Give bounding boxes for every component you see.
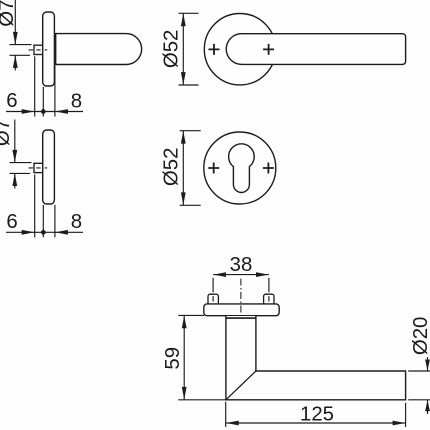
ext line Ø52 top (row2) [180,130,201,132]
ext line pin bottom (row1) [10,54,31,56]
centreline (row3) [240,279,242,322]
arrow 38 right [256,272,269,277]
ext line x=54.9 (row2) [54,205,56,238]
dim line Ø7 upper (row2) [14,120,16,163]
dim line 6/8 (row2) [6,231,83,233]
screw right (row3) [264,294,274,305]
svg-text:6: 6 [6,211,17,233]
arrow 59 up [182,316,187,329]
dim line 125 [226,422,406,424]
screw slot right (row3) [268,296,270,301]
dim line 6/8 (row1) [6,111,83,113]
arrow 8 (row1) [55,109,68,114]
dim line Ø52 (row1) [182,13,184,85]
svg-text:59: 59 [162,347,184,370]
ext line x=43.3 (row2) [42,205,44,238]
arrow Ø7 up (row2) [12,173,17,186]
neck collar line [225,317,256,319]
arrow 6 (row2) [22,230,35,235]
dim line Ø20 upper [427,357,429,371]
svg-text:Ø20: Ø20 [410,317,430,356]
dim line Ø20 lower [427,400,429,414]
arrow Ø20 up [425,400,430,411]
svg-text:6: 6 [6,90,17,112]
screw cross left (row2) [208,163,219,174]
arrow 6 (row1) [22,109,35,114]
arrow Ø52 down (row1) [181,72,186,85]
spindle pin (row2) [34,163,43,172]
dim line 38 [213,274,269,276]
ext line 125 left [225,402,227,427]
dim line Ø7 lower (row2) [14,174,16,189]
svg-text:Ø52: Ø52 [161,30,183,69]
svg-text:125: 125 [300,403,334,425]
svg-text:8: 8 [71,211,82,233]
ext line x=43.3 (row1) [42,87,44,117]
screw slot left (row3) [212,296,214,301]
arrow 125 right [393,421,406,426]
arrow Ø7 down (row1) [13,32,18,45]
ext line Ø20 bottom [408,399,430,401]
screw cross right (row2) [263,163,274,174]
pin centreline dashes (row1) [29,49,48,51]
ext line pin top (row1) [10,44,32,46]
arrow Ø52 down (row2) [181,192,186,205]
dim line Ø52 (row2) [182,131,184,206]
svg-text:8: 8 [71,90,82,112]
rose side view (row2) [43,130,55,204]
arrow Ø20 down [425,360,430,371]
svg-text:Ø52: Ø52 [161,148,183,187]
arrow Ø52 up (row2) [181,131,186,144]
ext line x=34.7 (row1) [34,56,36,116]
ext line Ø52 top (row1) [179,12,199,14]
arrow 125 left [226,421,239,426]
euro profile keyhole [229,144,255,193]
mitre crease [226,371,256,400]
ext line 59 top [178,314,204,316]
ext line x=34.7 (row2) [34,174,36,237]
screw cross left (row1) [209,44,220,55]
dim line Ø7 upper (row1) [14,0,16,44]
arrow Ø7 up (row1) [13,55,18,68]
ext line 38 right [268,278,270,293]
svg-text:Ø7: Ø7 [0,119,14,146]
ext line 59 bottom [178,399,226,401]
ext line pin bottom (row2) [10,172,31,174]
screw left (row3) [208,294,218,305]
pin centreline dashes (row2) [29,167,48,169]
arrow 59 down [182,387,187,400]
diamond marker (row2) [40,229,46,235]
svg-text:38: 38 [230,254,253,276]
ext line Ø52 bottom (row2) [180,204,201,206]
ext line Ø52 bottom (row1) [179,84,199,86]
grip side view (row1) [56,34,142,65]
ext line Ø20 top [408,370,430,372]
ext line 38 left [212,278,214,293]
dim line 59 [183,315,185,399]
arrow 38 left [213,272,226,277]
handle bar front view (row1) [226,34,405,65]
arrow Ø7 down (row2) [12,150,17,163]
arrow 8 (row2) [55,230,68,235]
ext line pin top (row2) [10,162,32,164]
spindle pin (row1) [34,45,43,54]
rose side view (row1) [43,12,55,86]
rose front view circle (row1) [204,14,275,85]
handle neck and lever outline (row3) [226,316,406,400]
diamond marker (row1) [40,108,46,114]
escutcheon front circle (row2) [204,132,276,204]
ext line 125 right [405,403,407,427]
arrow Ø52 up (row1) [181,14,186,27]
ext line x=54.9 (row1) [54,66,56,117]
screw cross right (row1) [263,44,274,55]
rose edge plate (row3) [204,304,279,316]
dim line Ø7 lower (row1) [14,56,16,71]
